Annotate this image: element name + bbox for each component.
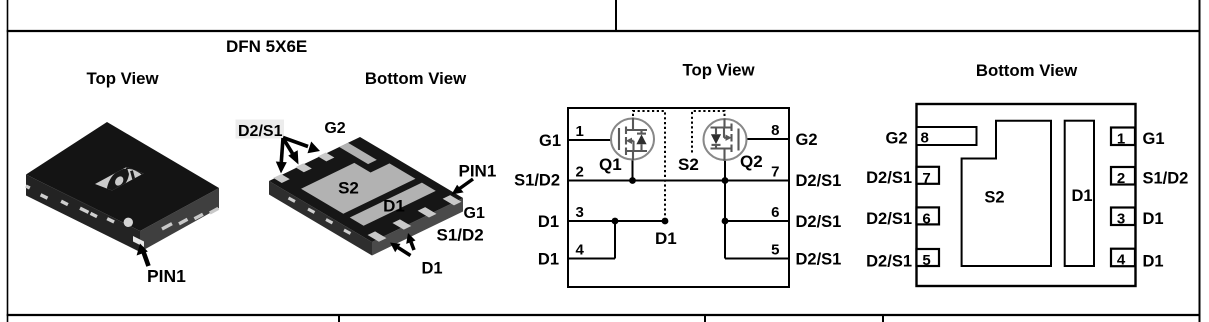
D1 arrow 1 (bottom view)	[390, 243, 411, 256]
svg-text:G1: G1	[1143, 130, 1165, 148]
svg-text:PIN1: PIN1	[459, 162, 497, 181]
pad 1 G1	[1111, 128, 1135, 146]
wire Q1 source vertical	[632, 159, 634, 181]
junction dot Q1 source / pin2	[629, 177, 636, 184]
table header bottom rule	[7, 30, 1201, 32]
svg-text:D1: D1	[655, 229, 677, 248]
svg-text:S1/D2: S1/D2	[1143, 170, 1189, 188]
pad 2 S1/D2	[1111, 167, 1135, 185]
diode cathode bar	[637, 133, 646, 135]
package bottom face (black)	[268, 136, 466, 243]
svg-text:3: 3	[1117, 211, 1125, 228]
dotted net Q2 source to S2	[692, 111, 725, 154]
diode stem	[640, 130, 642, 151]
svg-text:5: 5	[771, 242, 779, 259]
svg-text:D1: D1	[538, 213, 559, 231]
junction dot pin3/pin4	[612, 218, 619, 225]
pad S2	[962, 121, 1051, 266]
svg-text:PIN1: PIN1	[147, 266, 186, 286]
svg-text:6: 6	[771, 204, 779, 221]
G2 pad (pin 8)	[339, 143, 377, 164]
wire Q2 drain vertical	[724, 160, 726, 259]
S2 pad	[301, 154, 415, 214]
table header column divider	[615, 0, 617, 31]
svg-text:Bottom View: Bottom View	[365, 69, 467, 88]
pad 4 D1	[1111, 249, 1135, 267]
svg-text:6: 6	[922, 211, 930, 228]
transistor Q1 (N-MOSFET)	[611, 118, 654, 161]
wire pin6 D2/S1	[725, 220, 789, 222]
svg-text:D2/S1: D2/S1	[796, 251, 842, 269]
source link	[626, 151, 647, 160]
channel segments	[625, 127, 627, 135]
table bottom rule	[7, 314, 1201, 316]
svg-text:8: 8	[921, 130, 929, 147]
drain link	[626, 118, 647, 131]
svg-text:S1/D2: S1/D2	[514, 172, 560, 190]
D1 arrow 2 (bottom view)	[406, 233, 415, 250]
svg-text:DFN 5X6E: DFN 5X6E	[226, 37, 307, 56]
wire pin8 G2	[737, 138, 789, 140]
body link	[629, 141, 634, 151]
svg-text:2: 2	[576, 164, 584, 181]
svg-text:D1: D1	[422, 260, 443, 278]
D2/S1 pad (pin 7)	[318, 152, 335, 161]
svg-text:Top View: Top View	[682, 61, 755, 80]
svg-text:S1/D2: S1/D2	[437, 226, 484, 245]
svg-text:D1: D1	[1143, 252, 1164, 270]
table frame right border	[1199, 0, 1201, 322]
svg-text:3: 3	[576, 204, 584, 221]
svg-text:D1: D1	[1143, 210, 1164, 228]
D2/S1 pad (pin 5)	[273, 174, 290, 183]
pad D1	[1065, 121, 1094, 266]
PIN1 arrow (bottom view)	[452, 179, 474, 195]
gate bar	[618, 128, 620, 150]
wire pin3 D1	[568, 220, 664, 222]
junction dot D1 node	[662, 218, 669, 225]
svg-text:D2/S1: D2/S1	[866, 252, 912, 270]
D2/S1 arrow 2	[283, 138, 299, 165]
junction dot Q2 / pin6	[722, 218, 729, 225]
S1/D2 pad (pin 2)	[418, 207, 437, 217]
schematic outline box	[568, 108, 789, 287]
svg-text:1: 1	[1117, 131, 1125, 148]
D1 pad (pin 4)	[368, 231, 387, 241]
pad 3 D1	[1111, 208, 1135, 226]
wire pin4 D1	[568, 258, 615, 260]
svg-text:D1: D1	[1071, 187, 1092, 205]
package body right side wall	[140, 188, 219, 252]
svg-text:D2/S1: D2/S1	[866, 169, 912, 187]
svg-text:D2/S1: D2/S1	[796, 172, 842, 190]
PIN1 arrow (top view)	[137, 244, 149, 267]
svg-text:Top View: Top View	[86, 69, 159, 88]
logo alpha glyph	[107, 168, 144, 192]
dotted net Q1 drain to D1	[633, 111, 665, 221]
svg-text:D1: D1	[383, 197, 405, 216]
D1 pad (pin 3)	[392, 219, 411, 229]
wire pin1 G1	[568, 139, 618, 141]
pad 6 D2/S1	[917, 207, 940, 224]
svg-text:7: 7	[771, 164, 779, 181]
package body left side wall	[26, 175, 140, 253]
pin1 corner pad	[133, 236, 144, 247]
D1 pad	[350, 183, 436, 226]
transistor Q2 (N-MOSFET, rotated 180)	[704, 119, 747, 162]
pin1 index dot	[124, 218, 133, 227]
svg-text:S2: S2	[338, 179, 359, 198]
wire pin5 D2/S1	[725, 258, 789, 260]
svg-text:S2: S2	[678, 155, 699, 174]
svg-text:G2: G2	[796, 131, 818, 149]
svg-text:Q2: Q2	[740, 152, 763, 171]
svg-text:D2/S1: D2/S1	[866, 210, 912, 228]
svg-text:4: 4	[1117, 252, 1126, 269]
wire pin3-pin4 vertical	[614, 220, 616, 259]
junction dot Q2 / pin7	[722, 177, 729, 184]
package body lower-left wall	[269, 181, 372, 256]
bottom row tick 3	[882, 315, 884, 322]
svg-text:1: 1	[576, 123, 584, 140]
svg-text:D2/S1: D2/S1	[238, 123, 283, 140]
right wall pads	[162, 208, 218, 229]
body arrow head	[626, 138, 632, 144]
pad 5 D2/S1	[917, 249, 940, 266]
svg-text:S2: S2	[984, 189, 1004, 207]
bottom row tick 1	[338, 315, 340, 322]
svg-text:G2: G2	[324, 120, 345, 137]
svg-text:G1: G1	[464, 205, 485, 222]
table frame left border	[7, 0, 9, 322]
lower-left wall pads (bottom view)	[289, 198, 351, 234]
wire pin2/pin7 S1/D2 bus	[568, 180, 789, 182]
D2/S1 callout background	[236, 120, 285, 139]
G1 pad (pin 1)	[443, 195, 462, 205]
diode triangle	[636, 134, 646, 144]
svg-text:7: 7	[922, 170, 930, 187]
svg-text:G1: G1	[539, 132, 561, 150]
D2/S1 arrow 3	[283, 138, 320, 154]
svg-text:G2: G2	[885, 130, 907, 148]
pinout outline box	[917, 104, 1136, 286]
D2/S1 arrow 1	[276, 138, 287, 174]
svg-text:2: 2	[1117, 170, 1125, 187]
svg-text:8: 8	[771, 122, 779, 139]
left wall pads	[26, 186, 114, 222]
svg-text:Q1: Q1	[599, 155, 622, 174]
svg-text:D1: D1	[538, 251, 559, 269]
svg-text:5: 5	[922, 252, 930, 269]
svg-text:4: 4	[576, 242, 585, 259]
bottom row tick 2	[704, 315, 706, 322]
D2/S1 pad (pin 6)	[295, 163, 312, 172]
svg-text:Bottom View: Bottom View	[976, 61, 1078, 80]
package top face	[26, 122, 219, 231]
svg-text:D2/S1: D2/S1	[796, 213, 842, 231]
package body lower-right wall	[372, 198, 463, 256]
pad 8 G2	[917, 127, 977, 145]
pad 7 D2/S1	[917, 167, 940, 184]
